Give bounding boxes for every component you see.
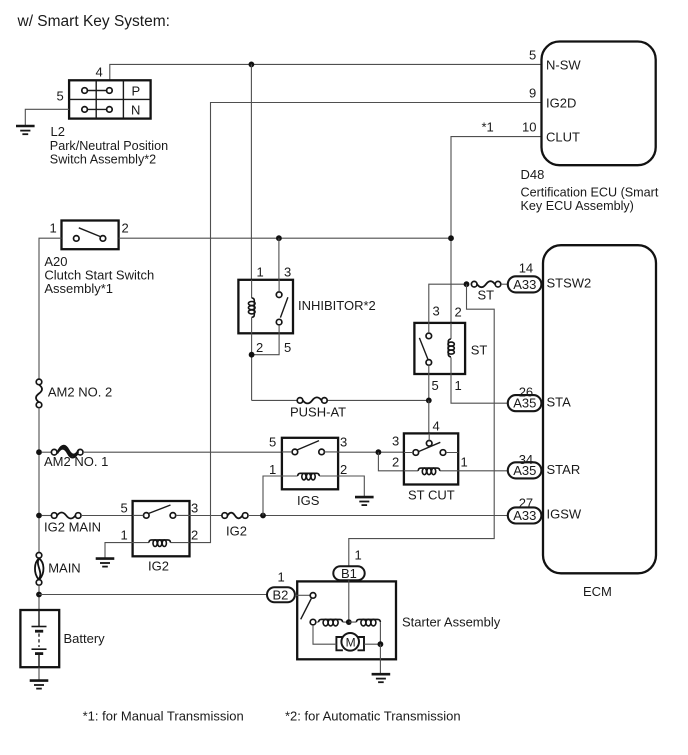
node junction B1/solenoid (346, 619, 352, 625)
svg-text:M: M (346, 636, 356, 650)
svg-text:Key ECU Assembly): Key ECU Assembly) (521, 199, 634, 213)
svg-text:Switch Assembly*2: Switch Assembly*2 (50, 152, 156, 166)
svg-text:5: 5 (121, 501, 128, 516)
ground L2 (16, 126, 35, 134)
svg-text:3: 3 (284, 265, 291, 280)
svg-text:2: 2 (256, 340, 263, 355)
svg-text:ST: ST (471, 343, 488, 358)
contact circles INHIBITOR switch (276, 292, 282, 298)
connector A35 STAR oval (508, 462, 542, 478)
coil IGS (282, 475, 338, 477)
svg-text:STAR: STAR (547, 462, 581, 477)
wire B1 into solenoid (348, 580, 350, 622)
svg-text:2: 2 (392, 455, 399, 470)
coil IG2 (133, 542, 190, 544)
node junction IG2 MAIN branch (36, 513, 42, 519)
wire IG2D net: D48 pin 9 to IG2 relay pin 2 (190, 103, 542, 543)
wire bus MAIN to battery (38, 585, 40, 610)
svg-text:MAIN: MAIN (48, 561, 80, 576)
svg-text:3: 3 (340, 434, 347, 449)
svg-text:34: 34 (519, 452, 533, 467)
contact circles IG2 switch (144, 513, 150, 519)
svg-text:IGS: IGS (297, 493, 320, 508)
switch lever A20 (79, 228, 101, 237)
svg-text:IG2D: IG2D (546, 95, 576, 110)
fuse MAIN fusible link (35, 553, 44, 586)
motor M starter (336, 633, 364, 651)
svg-text:4: 4 (96, 65, 103, 80)
wire ST CUT pin2 jog (378, 452, 404, 471)
svg-text:w/ Smart Key System:: w/ Smart Key System: (17, 13, 170, 30)
connector B2 oval (267, 587, 295, 602)
svg-text:Park/Neutral Position: Park/Neutral Position (50, 139, 168, 153)
wire IGS pin1 down to IGSW wire (263, 476, 282, 516)
svg-text:1: 1 (278, 570, 285, 585)
node junction pins 2/5 (249, 352, 255, 358)
svg-text:ECM: ECM (583, 584, 612, 599)
fuse IG2 (222, 513, 248, 519)
connector A35 STA oval (508, 395, 542, 411)
node junction STSW2 (464, 281, 470, 287)
wire IGS pin2 to ground (338, 476, 364, 497)
ground IGS (355, 497, 374, 505)
fuse ST (471, 281, 507, 287)
wire INHIBITOR pin2 down (251, 333, 253, 400)
svg-text:1: 1 (355, 548, 362, 563)
svg-text:2: 2 (191, 528, 198, 543)
svg-text:1: 1 (50, 221, 57, 236)
svg-text:3: 3 (392, 434, 399, 449)
svg-text:L2: L2 (51, 124, 65, 139)
node junction A20 wire / INHIBITOR pin3 (276, 235, 282, 241)
contact circles ST switch (426, 333, 432, 339)
wire starter to ground (379, 644, 381, 673)
svg-text:N: N (131, 103, 140, 118)
svg-text:10: 10 (522, 120, 536, 135)
relay ST body (414, 323, 465, 374)
svg-text:AM2 NO. 2: AM2 NO. 2 (48, 385, 112, 400)
connector A33 STSW2 oval (508, 276, 542, 292)
svg-text:5: 5 (432, 378, 439, 393)
svg-text:*1: for Manual Transmission: *1: for Manual Transmission (83, 709, 244, 724)
wire INHIBITOR pin3 riser (278, 238, 280, 280)
wire ST pin1 to ECM A35 STA (451, 374, 508, 403)
switch lever ST CUT (418, 442, 440, 452)
relay INHIBITOR body (238, 280, 293, 334)
svg-text:Battery: Battery (64, 631, 106, 646)
svg-text:14: 14 (519, 260, 533, 275)
svg-text:Assembly*1: Assembly*1 (44, 281, 113, 296)
wire B2 feed (39, 594, 267, 596)
svg-text:5: 5 (284, 340, 291, 355)
wire IG2 pin3 to IG2 fuse (190, 515, 222, 517)
solenoid circle starter (310, 619, 316, 625)
wire PUSH-AT feed (252, 399, 429, 401)
wire N-SW net: P/N pin4 riser to D48 pin 5 (110, 64, 542, 80)
svg-text:ST: ST (478, 288, 495, 303)
svg-text:26: 26 (519, 384, 533, 399)
node junction motor output (378, 641, 384, 647)
wire L2 pin5 to ground (25, 109, 69, 125)
relay IG2 body (133, 501, 190, 556)
svg-text:5: 5 (269, 434, 276, 449)
svg-text:27: 27 (519, 496, 533, 511)
wire IG2 MAIN to IG2 relay pin5 (81, 515, 133, 517)
fuse PUSH-AT (297, 397, 327, 403)
wire IG2 pin1 to ground (105, 543, 133, 558)
node junction B2 branch (36, 592, 42, 598)
contact circles IGS switch (292, 449, 298, 455)
switch lever INHIBITOR (280, 297, 288, 317)
contact circle starter switch (310, 593, 316, 599)
node junction ST pin5 / PUSH-AT (426, 398, 432, 404)
wire A20 pin1 down the left bus (39, 238, 62, 379)
switch lever ST (419, 338, 427, 359)
switch A20 clutch start switch body (62, 221, 119, 250)
svg-text:CLUT: CLUT (546, 130, 580, 145)
switch lever IG2 (149, 505, 171, 513)
svg-text:B2: B2 (273, 587, 289, 602)
svg-text:STSW2: STSW2 (547, 276, 592, 291)
svg-text:1: 1 (455, 378, 462, 393)
wire AM2 NO.1 to IGS pin5 (83, 451, 282, 453)
svg-text:IGSW: IGSW (547, 507, 582, 522)
svg-text:5: 5 (57, 89, 64, 104)
svg-text:AM2 NO. 1: AM2 NO. 1 (44, 454, 108, 469)
coil ST CUT (404, 470, 458, 472)
svg-text:5: 5 (529, 48, 536, 63)
wire IGSW net to ECM A33 (248, 515, 508, 517)
fuse AM2 NO. 1 (42, 446, 83, 458)
coil starter solenoid left (317, 621, 349, 623)
node junction A20 wire / CLUT riser (448, 235, 454, 241)
svg-text:B1: B1 (341, 566, 357, 581)
starter assembly body (297, 581, 396, 659)
relay ST CUT body (404, 433, 458, 484)
contact circles L2 row P (82, 88, 88, 94)
svg-text:1: 1 (257, 265, 264, 280)
svg-text:N-SW: N-SW (546, 57, 581, 72)
svg-text:ST CUT: ST CUT (408, 488, 455, 503)
wire motor right to dot (364, 643, 380, 645)
wire INHIBITOR pin5 jog (252, 333, 280, 354)
fuse AM2 NO. 2 (36, 379, 42, 408)
svg-text:1: 1 (121, 528, 128, 543)
svg-text:9: 9 (529, 86, 536, 101)
contact circles ST CUT (413, 450, 419, 456)
relay IGS body (282, 438, 338, 490)
wire left bus below AM2 NO.2 (38, 408, 40, 553)
connector A33 IGSW oval (508, 507, 542, 523)
node junction AM2 NO.1 branch (36, 449, 42, 455)
node junction IGS pin1 tap (260, 513, 266, 519)
coil ST (450, 323, 452, 374)
wire ST CUT pin1 to ECM A35 STAR (458, 470, 508, 472)
svg-text:INHIBITOR*2: INHIBITOR*2 (298, 298, 376, 313)
wire INHIBITOR pin1 riser (250, 64, 252, 279)
switch lever starter (301, 599, 312, 620)
switch L2 park/neutral position switch body (69, 80, 151, 118)
wire B2 into starter contact (295, 594, 310, 596)
ECU ECM box (543, 245, 656, 573)
svg-text:STA: STA (547, 395, 572, 410)
ground starter (372, 674, 391, 682)
fuse IG2 MAIN (42, 513, 81, 519)
svg-text:3: 3 (433, 304, 440, 319)
svg-text:3: 3 (191, 501, 198, 516)
node junction ST CUT tap (376, 449, 382, 455)
svg-text:D48: D48 (521, 167, 545, 182)
wire A20 pin2 to CLUT riser (119, 237, 451, 239)
svg-text:1: 1 (269, 462, 276, 477)
ground battery (30, 681, 49, 689)
wire ST pin3 up to STSW2 junction (429, 284, 467, 323)
wire ST CUT pin4 riser (428, 400, 430, 433)
svg-text:PUSH-AT: PUSH-AT (290, 405, 346, 420)
battery body (20, 610, 59, 667)
svg-text:1: 1 (461, 455, 468, 470)
ground IG2 (96, 559, 115, 567)
svg-text:2: 2 (340, 462, 347, 477)
svg-text:4: 4 (433, 419, 440, 434)
wire STSW2 jog down to B1 riser (349, 284, 494, 566)
svg-text:IG2: IG2 (148, 559, 169, 574)
svg-text:2: 2 (122, 221, 129, 236)
svg-text:2: 2 (455, 305, 462, 320)
node junction on N-SW wire (INHIBITOR pin1 tap) (249, 62, 255, 68)
contact circles A20 (74, 236, 80, 242)
svg-text:IG2: IG2 (226, 524, 247, 539)
switch lever IGS (297, 441, 319, 450)
wire ST pin5 down (428, 374, 430, 400)
wire solenoid to motor left (313, 625, 336, 644)
wire IGS pin3 to ST CUT pin3 (338, 451, 404, 453)
ECU D48 certification ECU box (542, 42, 656, 166)
coil starter solenoid right (349, 622, 381, 644)
svg-text:*2: for Automatic Transmission: *2: for Automatic Transmission (285, 709, 461, 724)
svg-text:P: P (132, 84, 141, 99)
wire CLUT net: D48 pin 10 to ST relay pin 2 (451, 137, 542, 323)
svg-text:Starter Assembly: Starter Assembly (402, 614, 501, 629)
svg-text:*1: *1 (482, 120, 494, 135)
svg-text:IG2 MAIN: IG2 MAIN (44, 520, 101, 535)
svg-text:A33: A33 (513, 277, 536, 292)
svg-text:Certification ECU (Smart: Certification ECU (Smart (521, 186, 659, 200)
connector B1 oval (333, 566, 364, 581)
coil INHIBITOR (251, 280, 253, 334)
wire battery to ground (38, 667, 40, 680)
contact circles L2 row N (82, 107, 88, 113)
